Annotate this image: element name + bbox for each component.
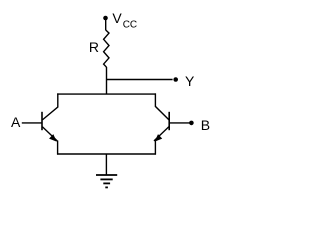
wire resistor bottom to top rail — [106, 67, 108, 94]
wire input A to base — [22, 122, 42, 124]
node B terminal dot — [189, 121, 194, 126]
wire base to input B — [170, 122, 190, 124]
node Y terminal dot — [173, 77, 178, 82]
node VCC terminal dot — [103, 16, 108, 21]
transistor Q2 base bar — [168, 112, 170, 130]
wire right collector lead — [155, 93, 169, 120]
svg-text:A: A — [11, 114, 21, 130]
resistor R — [104, 30, 109, 67]
transistor Q1 base bar — [41, 112, 43, 130]
transistor Q1 emitter arrowhead — [50, 135, 57, 141]
transistor Q1 emitter line — [42, 127, 57, 141]
wire ground stem — [105, 154, 107, 175]
svg-text:B: B — [201, 117, 210, 133]
svg-text:V: V — [112, 10, 122, 26]
transistor Q2 emitter arrowhead — [155, 135, 162, 141]
svg-text:CC: CC — [123, 20, 137, 31]
wire right emitter lead to bottom rail — [154, 141, 156, 155]
svg-text:Y: Y — [185, 73, 195, 89]
transistor Q2 emitter line — [154, 127, 169, 141]
wire left emitter lead to bottom rail — [57, 141, 59, 155]
label VCC — [112, 10, 137, 31]
svg-text:R: R — [89, 39, 99, 55]
wire output branch to Y — [107, 79, 173, 81]
wire VCC dot to resistor top — [105, 18, 107, 30]
wire top rail — [57, 93, 156, 95]
wire bottom rail — [57, 153, 156, 155]
ground — [96, 175, 117, 187]
wire left collector lead — [42, 93, 57, 120]
